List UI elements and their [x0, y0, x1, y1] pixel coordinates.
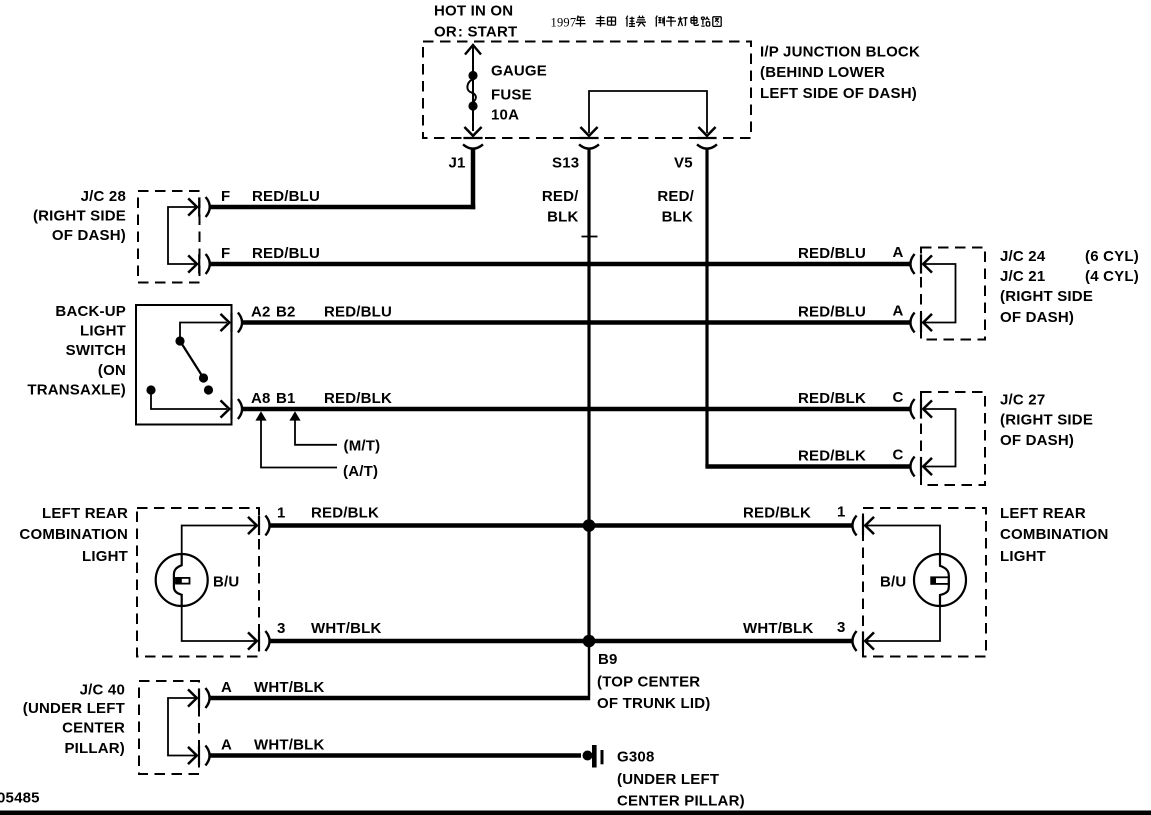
svg-text:SWITCH: SWITCH	[66, 342, 126, 359]
svg-text:OF DASH): OF DASH)	[1000, 309, 1074, 326]
right rear combination light box	[863, 508, 986, 657]
right bulb wire lower	[867, 606, 940, 641]
bulb B/U right	[914, 554, 966, 606]
svg-text:RED/BLU: RED/BLU	[798, 303, 866, 320]
char che	[666, 16, 676, 27]
connector J/C40 pin A lower	[188, 746, 210, 766]
switch fixed contact right	[204, 385, 213, 394]
svg-text:(ON: (ON	[98, 362, 126, 379]
wire B9 drop	[588, 641, 591, 696]
wire M/T tag	[295, 419, 337, 445]
J/C 27 box	[921, 392, 985, 485]
wire switch to J/C27 RED/BLK	[242, 407, 910, 412]
junction B9 lower	[583, 635, 596, 648]
svg-text:J/C 24: J/C 24	[1000, 248, 1046, 265]
svg-text:BACK-UP: BACK-UP	[55, 303, 126, 320]
J/C 27 internal bracket	[925, 409, 956, 467]
wire J/C40 to G308 WHT/BLK	[211, 753, 582, 758]
svg-text:A: A	[221, 679, 232, 696]
connector right light pin 1	[852, 516, 874, 536]
svg-text:RED/BLK: RED/BLK	[798, 447, 866, 464]
bulb B/U left	[156, 554, 208, 606]
wire S13-V5 internal bar	[589, 91, 707, 133]
connector J/C27 pin C lower	[910, 457, 932, 477]
svg-text:B/U: B/U	[880, 574, 906, 591]
wire S13 trunk RED/BLK	[587, 148, 590, 641]
switch internal wire lower	[151, 390, 227, 409]
svg-text:HOT IN ON: HOT IN ON	[434, 3, 513, 20]
svg-text:(UNDER LEFT: (UNDER LEFT	[23, 700, 125, 717]
connector J/C40 pin A upper	[188, 688, 210, 708]
svg-text:WHT/BLK: WHT/BLK	[743, 620, 814, 637]
char tian	[608, 17, 616, 25]
svg-text:J/C 21: J/C 21	[1000, 268, 1045, 285]
switch fixed contact left	[146, 385, 155, 394]
connector J/C28 pin F upper	[188, 197, 210, 217]
svg-text:PILLAR): PILLAR)	[64, 740, 125, 757]
fuse bottom dot	[468, 101, 477, 110]
svg-text:B/U: B/U	[213, 574, 239, 591]
J/C 40 box	[139, 681, 199, 774]
char mei	[636, 16, 646, 27]
svg-text:1: 1	[277, 504, 286, 521]
connector S13	[579, 127, 599, 149]
left bulb wire lower	[182, 606, 255, 641]
svg-text:(M/T): (M/T)	[344, 438, 381, 455]
svg-text:LIGHT: LIGHT	[82, 548, 128, 565]
svg-text:1: 1	[837, 504, 846, 521]
svg-text:(BEHIND LOWER: (BEHIND LOWER	[760, 64, 885, 81]
connector J/C28 pin F lower	[188, 254, 210, 274]
svg-text:OF DASH): OF DASH)	[52, 227, 126, 244]
svg-text:(RIGHT SIDE: (RIGHT SIDE	[1000, 412, 1093, 429]
switch pivot contact	[175, 336, 184, 345]
connector switch upper	[221, 313, 243, 333]
svg-text:RED/BLK: RED/BLK	[324, 390, 392, 407]
svg-text:A8: A8	[251, 390, 271, 407]
svg-text:OF DASH): OF DASH)	[1000, 432, 1074, 449]
svg-text:S13: S13	[552, 155, 579, 172]
wire rear lights WHT/BLK	[270, 639, 853, 644]
left rear combination light box	[137, 508, 259, 657]
arrow A8 (A/T)	[255, 411, 266, 420]
right bulb wire upper	[867, 526, 940, 555]
svg-text:RED/: RED/	[657, 188, 694, 205]
svg-text:F: F	[221, 188, 230, 205]
connector left light pin 3	[248, 631, 270, 651]
svg-text:(RIGHT SIDE: (RIGHT SIDE	[1000, 288, 1093, 305]
svg-text:CENTER: CENTER	[62, 720, 125, 737]
svg-text:C: C	[893, 389, 904, 406]
connector right light pin 3	[852, 631, 874, 651]
svg-text:C: C	[893, 447, 904, 464]
svg-text:COMBINATION: COMBINATION	[1000, 526, 1109, 543]
char deng	[678, 17, 687, 27]
svg-text:WHT/BLK: WHT/BLK	[254, 679, 325, 696]
svg-text:TRANSAXLE): TRANSAXLE)	[27, 381, 126, 398]
svg-text:05485: 05485	[0, 790, 40, 807]
J/C 40 internal bracket	[168, 698, 195, 756]
ground dot	[583, 751, 593, 761]
svg-text:I/P JUNCTION BLOCK: I/P JUNCTION BLOCK	[760, 44, 920, 61]
svg-text:COMBINATION: COMBINATION	[19, 526, 128, 543]
wire V5 to J/C27 RED/BLK	[705, 464, 909, 469]
svg-text:LIGHT: LIGHT	[80, 323, 126, 340]
svg-text:RED/BLU: RED/BLU	[798, 245, 866, 262]
back-up light switch box	[136, 305, 232, 425]
splice tick on S13	[582, 236, 598, 238]
char jia	[626, 16, 635, 27]
wire J1 to J/C28 RED/BLU	[211, 205, 476, 210]
fuse arrow up	[465, 45, 481, 55]
bottom rule	[0, 811, 1151, 815]
svg-text:10A: 10A	[491, 106, 519, 123]
svg-text:A2: A2	[251, 303, 271, 320]
svg-text:(4 CYL): (4 CYL)	[1085, 268, 1139, 285]
svg-text:CENTER PILLAR): CENTER PILLAR)	[617, 793, 745, 810]
svg-text:BLK: BLK	[547, 209, 578, 226]
svg-text:LEFT SIDE OF DASH): LEFT SIDE OF DASH)	[760, 85, 917, 102]
J/C 24 box	[921, 248, 985, 340]
wire J1 trunk	[471, 148, 476, 209]
svg-text:RED/BLU: RED/BLU	[252, 188, 320, 205]
svg-text:A: A	[893, 244, 904, 261]
J/C 28 box	[138, 191, 200, 283]
svg-text:J/C 28: J/C 28	[81, 188, 126, 205]
svg-text:3: 3	[277, 620, 286, 637]
svg-text:A: A	[893, 303, 904, 320]
wire V5 trunk RED/BLK	[705, 148, 708, 467]
junction B9 upper	[583, 519, 596, 532]
svg-text:LEFT REAR: LEFT REAR	[42, 505, 128, 522]
svg-text:3: 3	[837, 619, 846, 636]
svg-text:RED/BLU: RED/BLU	[252, 245, 320, 262]
wire J/C40 to B9 WHT/BLK	[211, 696, 591, 701]
connector J/C24 pin A upper	[910, 254, 932, 274]
svg-text:RED/: RED/	[542, 188, 579, 205]
fuse top dot	[468, 71, 477, 80]
svg-text:A: A	[221, 736, 232, 753]
svg-text:1997: 1997	[551, 16, 577, 30]
svg-text:G308: G308	[617, 749, 655, 766]
wire switch to J/C24 RED/BLU	[242, 320, 910, 325]
svg-text:GAUGE: GAUGE	[491, 62, 547, 79]
svg-text:LEFT REAR: LEFT REAR	[1000, 505, 1086, 522]
fuse element	[467, 79, 476, 103]
left bulb wire upper	[182, 526, 255, 555]
svg-text:LIGHT: LIGHT	[1000, 548, 1046, 565]
switch blade tip	[199, 373, 208, 382]
svg-text:RED/BLK: RED/BLK	[311, 504, 379, 521]
char dian	[691, 16, 698, 26]
connector left light pin 1	[248, 516, 270, 536]
svg-text:RED/BLK: RED/BLK	[743, 504, 811, 521]
svg-text:(TOP CENTER: (TOP CENTER	[597, 674, 700, 691]
svg-text:OF TRUNK LID): OF TRUNK LID)	[597, 695, 710, 712]
svg-text:(RIGHT SIDE: (RIGHT SIDE	[33, 208, 126, 225]
svg-text:V5: V5	[674, 155, 693, 172]
svg-text:FUSE: FUSE	[491, 86, 532, 103]
wire A/T tag	[261, 419, 337, 468]
connector J/C24 pin A lower	[910, 313, 932, 333]
char feng	[596, 16, 606, 27]
J/C 28 internal bracket	[168, 207, 195, 264]
svg-text:(6 CYL): (6 CYL)	[1085, 248, 1139, 265]
switch blade	[180, 341, 204, 378]
wire rear lights RED/BLK	[270, 523, 853, 528]
I/P junction block box	[423, 42, 751, 139]
svg-text:RED/BLK: RED/BLK	[798, 390, 866, 407]
svg-text:J1: J1	[449, 155, 466, 172]
wire J/C28 to J/C24 RED/BLU	[211, 262, 910, 267]
svg-text:B9: B9	[598, 651, 618, 668]
svg-text:J/C 27: J/C 27	[1000, 392, 1045, 409]
char tu	[713, 17, 721, 27]
char lu	[701, 17, 709, 27]
fuse lead	[472, 47, 474, 131]
J/C 24 internal bracket	[925, 264, 956, 323]
connector J/C27 pin C upper	[910, 399, 932, 419]
svg-text:(A/T): (A/T)	[343, 463, 378, 480]
arrow B1 (M/T)	[289, 411, 300, 420]
connector switch lower	[221, 399, 243, 419]
svg-text:F: F	[221, 245, 230, 262]
char nian	[576, 16, 586, 27]
switch internal wire upper	[180, 323, 227, 342]
svg-text:B2: B2	[276, 303, 296, 320]
svg-text:J/C 40: J/C 40	[80, 682, 125, 699]
connector V5	[697, 127, 717, 149]
svg-text:BLK: BLK	[662, 209, 693, 226]
svg-text:WHT/BLK: WHT/BLK	[254, 736, 325, 753]
svg-text:OR: START: OR: START	[434, 24, 517, 41]
char dao	[656, 16, 665, 27]
svg-text:RED/BLU: RED/BLU	[324, 303, 392, 320]
svg-text:WHT/BLK: WHT/BLK	[311, 620, 382, 637]
svg-text:(UNDER LEFT: (UNDER LEFT	[617, 771, 719, 788]
connector J1	[463, 127, 483, 149]
svg-text:B1: B1	[276, 390, 296, 407]
